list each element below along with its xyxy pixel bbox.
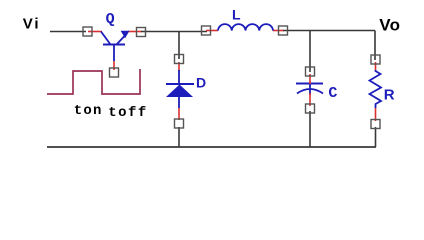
label C xyxy=(328,85,337,102)
svg-text:Vi: Vi xyxy=(23,15,41,32)
wire red stub Q collector to pad xyxy=(128,31,142,33)
wire red inductor left lead xyxy=(206,30,218,32)
label L xyxy=(232,7,241,23)
inductor L xyxy=(218,24,273,30)
pad resistor top xyxy=(371,55,380,64)
resistor R xyxy=(370,70,382,108)
wire red inductor right lead xyxy=(273,30,284,32)
label Q xyxy=(106,11,115,28)
ground rail (bottom return) xyxy=(47,146,376,148)
label D xyxy=(196,74,206,90)
node Vo label xyxy=(379,16,400,35)
svg-text:ton: ton xyxy=(74,103,103,119)
pad inductor left xyxy=(202,26,211,35)
node Vi label xyxy=(23,15,41,32)
wire output node down to capacitor pad xyxy=(309,31,311,73)
svg-text:L: L xyxy=(232,7,241,23)
wire resistor bottom pad to ground rail xyxy=(375,127,377,147)
wire red diode upper lead xyxy=(178,62,180,71)
pad inductor right xyxy=(279,26,288,35)
wire diode bottom pad to ground rail xyxy=(178,127,180,147)
svg-text:D: D xyxy=(196,74,206,90)
label ton xyxy=(74,103,103,119)
label toff xyxy=(108,105,148,121)
pad diode top xyxy=(175,55,184,64)
pad capacitor bottom xyxy=(306,104,315,113)
pad on Vi wire xyxy=(83,27,92,36)
svg-text:toff: toff xyxy=(108,105,148,121)
pad at Q collector xyxy=(137,28,146,37)
transistor Q xyxy=(101,31,130,61)
wire red resistor bottom lead xyxy=(375,108,377,121)
wire output corner down to resistor pad xyxy=(374,31,376,61)
wire red stub pad to Q emitter xyxy=(88,31,102,33)
wire capacitor bottom pad to ground rail xyxy=(309,111,311,147)
diode D xyxy=(166,70,194,108)
capacitor C xyxy=(296,84,323,96)
wire red diode lower lead xyxy=(178,108,180,120)
wire red capacitor top lead xyxy=(309,74,311,84)
wire red capacitor bottom lead xyxy=(309,93,311,106)
wire red Q base lead xyxy=(113,61,115,70)
pad resistor bottom xyxy=(371,120,380,129)
drive waveform ton/toff xyxy=(47,69,140,94)
label R xyxy=(384,86,395,103)
svg-text:R: R xyxy=(384,86,395,103)
pad at Q base xyxy=(110,68,119,77)
wire switch node down to diode pad xyxy=(178,32,180,60)
svg-text:C: C xyxy=(328,85,337,102)
wire red resistor top lead xyxy=(375,62,377,70)
pad capacitor top xyxy=(306,67,315,76)
svg-text:Vo: Vo xyxy=(379,16,400,35)
pad diode bottom xyxy=(175,119,184,128)
wire collector pad to inductor pad (switch node) xyxy=(141,31,207,33)
wire inductor pad to output corner xyxy=(283,30,375,32)
svg-text:Q: Q xyxy=(106,11,115,28)
wire Vi input to first pad xyxy=(50,31,86,33)
